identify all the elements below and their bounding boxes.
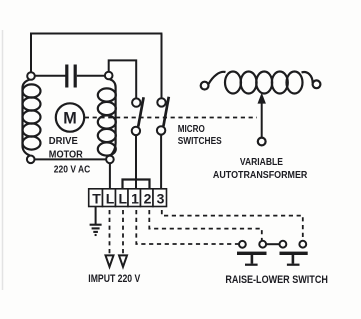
svg-text:L: L: [106, 191, 115, 207]
wire: left node to capacitor: [33, 75, 66, 77]
terminal T box: [89, 189, 103, 207]
wire: motor bottom-right node to terminal L: [109, 163, 111, 189]
svg-text:RAISE-LOWER SWITCH: RAISE-LOWER SWITCH: [225, 274, 328, 286]
svg-text:2: 2: [144, 191, 152, 207]
svg-text:DRIVE: DRIVE: [49, 135, 78, 147]
raise-lower paddle 2: [280, 252, 308, 266]
micro switch S1 bottom contact: [132, 127, 140, 135]
wiper bottom terminal: [258, 138, 266, 146]
motor right winding: [98, 79, 116, 155]
svg-text:MICRO: MICRO: [178, 123, 205, 135]
wire: top rail down to micro switch S2: [161, 34, 163, 99]
scan artifact left edge: [2, 30, 4, 290]
wire: S2 bottom to terminal 3: [160, 135, 162, 189]
svg-text:3: 3: [157, 191, 165, 207]
dashed wire: terminal 1 to raise-lower switch contact 1: [136, 210, 238, 244]
raise-lower contact 1: [239, 241, 246, 248]
capacitor C1 right plate: [74, 65, 77, 88]
raise-lower paddle 1: [237, 252, 267, 266]
node: motor top-right terminal: [105, 72, 113, 80]
motor M1 circle: [56, 103, 84, 131]
svg-text:AUTOTRANSFORMER: AUTOTRANSFORMER: [213, 169, 308, 181]
raise-lower contact 2: [259, 241, 266, 248]
wire: S1 bottom to terminal 1: [135, 135, 137, 189]
wire: right node up and over to micro switch S1: [109, 60, 137, 98]
svg-text:L: L: [119, 191, 128, 207]
variable autotransformer T1: [201, 72, 321, 146]
terminal L box (second): [116, 189, 129, 207]
autotransformer coil loops: [225, 72, 241, 94]
raise-lower contact 4: [299, 241, 306, 248]
dashed wire: terminal 2 to raise-lower switch contact 2: [149, 210, 261, 240]
dashed wire: terminal L to input arrow 1: [109, 210, 111, 254]
dashed wire: terminal 3 to raise-lower switch contact 4: [162, 210, 303, 241]
capacitor C1 left plate: [65, 65, 68, 88]
motor left winding: [23, 80, 41, 156]
wire: capacitor to right node: [77, 75, 107, 77]
terminal block T L L 1 2 3: [89, 189, 167, 207]
autotransformer right terminal: [313, 80, 321, 88]
input arrow 1: [106, 255, 114, 266]
raise-lower switch SW1: [237, 241, 308, 266]
autotransformer left terminal: [201, 82, 209, 90]
svg-text:SWITCHES: SWITCHES: [178, 135, 222, 147]
wiper arrowhead: [258, 93, 266, 104]
micro switch S1 top contact: [132, 98, 140, 106]
terminal 1 box: [128, 189, 141, 207]
svg-text:M: M: [63, 109, 77, 128]
svg-text:VARIABLE: VARIABLE: [240, 156, 283, 168]
raise-lower contact 3: [280, 241, 287, 248]
wire: top rail horizontal: [30, 33, 162, 35]
node: motor bottom-left terminal: [27, 156, 35, 164]
wiper stem: [261, 101, 263, 138]
wire: contact 2 to contact 3: [266, 243, 279, 245]
terminal 3 box: [153, 189, 167, 207]
svg-text:220 V AC: 220 V AC: [54, 164, 91, 176]
terminal L box (first): [103, 189, 116, 207]
wire: motor bottom rail: [35, 158, 107, 160]
node: motor bottom-right terminal: [106, 156, 114, 164]
micro switch S2 bottom contact: [157, 126, 165, 134]
micro switch S2 lever: [163, 97, 168, 126]
wire: left node up to top rail: [30, 34, 32, 73]
terminal 2 box: [141, 189, 154, 207]
svg-text:MOTOR: MOTOR: [49, 149, 83, 161]
ground wire from terminal T: [95, 207, 97, 225]
svg-text:T: T: [92, 191, 101, 207]
autotransformer coil lead-in left: [208, 72, 225, 84]
dashed wire: terminal L to input arrow 2: [122, 210, 124, 254]
svg-text:IMPUT 220 V: IMPUT 220 V: [88, 273, 141, 285]
micro switch S2 top contact: [157, 98, 165, 106]
ground symbol: [90, 225, 102, 235]
node: motor top-left terminal: [27, 72, 35, 80]
wire: jumper bracket terminal L to terminal 2: [123, 180, 150, 190]
input arrow 2: [119, 255, 127, 266]
svg-text:1: 1: [131, 191, 139, 207]
micro switch S1 lever: [138, 97, 143, 126]
dashed mechanical link: motor shaft to autotransformer wiper: [85, 117, 257, 119]
autotransformer coil lead-out right: [302, 72, 313, 83]
